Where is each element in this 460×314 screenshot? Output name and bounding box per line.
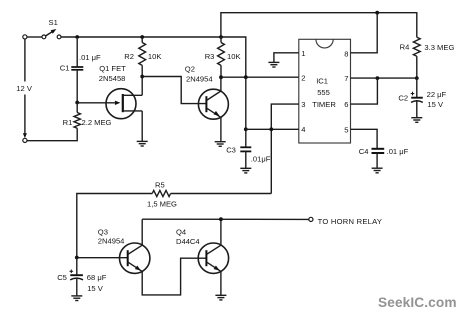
svg-text:1: 1: [301, 49, 305, 58]
wire R4 bottom lead: [416, 56, 418, 78]
svg-text:15 V: 15 V: [427, 100, 444, 109]
wire drain node to Q2 base: [142, 77, 206, 104]
node R2 top junction: [140, 35, 144, 39]
transistor Q4 (D44C4): [198, 243, 228, 273]
wire R5 right lead: [171, 193, 272, 195]
wire bottom return to R1: [27, 128, 77, 140]
wire pin 2 line: [221, 76, 299, 78]
wire pin 1 to ground: [274, 53, 299, 63]
node R4/C2 junction: [415, 76, 419, 80]
svg-text:12 V: 12 V: [16, 84, 33, 93]
capacitor C5 (electrolytic): [70, 258, 84, 296]
svg-text:R1: R1: [63, 118, 73, 127]
wire pin 5 to C4: [351, 129, 378, 148]
wire pin 6 tie to pin 7: [351, 78, 378, 104]
ground under C2: [411, 118, 422, 123]
svg-text:Q1 FET: Q1 FET: [99, 64, 126, 73]
svg-text:2N5458: 2N5458: [99, 74, 126, 83]
svg-text:2N4954: 2N4954: [98, 236, 125, 245]
wire Q4 collector riser: [220, 219, 222, 245]
svg-text:R2: R2: [124, 52, 134, 61]
node Q4 collector on output line: [219, 217, 223, 221]
ground under Q4: [215, 295, 226, 300]
svg-text:C2: C2: [398, 94, 408, 103]
switch S1: [42, 29, 61, 39]
node Q3 base / C5 junction: [75, 256, 79, 260]
resistor R2: [139, 43, 146, 66]
svg-text:68 μF: 68 μF: [87, 273, 107, 282]
svg-text:.01μF: .01μF: [251, 154, 271, 163]
ground under Q1: [137, 141, 148, 146]
ground under C3: [240, 168, 251, 173]
svg-text:4: 4: [301, 125, 305, 134]
svg-text:2: 2: [301, 74, 305, 83]
svg-text:15 V: 15 V: [87, 284, 104, 293]
wire R2 leads: [141, 37, 143, 43]
svg-text:2.2 MEG: 2.2 MEG: [82, 118, 112, 127]
svg-text:555: 555: [317, 88, 330, 97]
svg-text:SeekIC.com: SeekIC.com: [378, 295, 457, 310]
svg-text:6: 6: [344, 100, 348, 109]
svg-text:D44C4: D44C4: [176, 237, 200, 246]
node Q1 gate junction: [75, 101, 79, 105]
svg-text:R4: R4: [400, 42, 410, 51]
svg-text:.01 μF: .01 μF: [79, 53, 101, 62]
transistor Q1 (FET 2N5458): [106, 89, 142, 119]
capacitor C1: [71, 39, 83, 103]
resistor R5: [152, 190, 170, 196]
node pin8 riser top: [375, 11, 379, 15]
node pin 6/7 tie: [376, 76, 380, 80]
svg-text:C5: C5: [57, 273, 67, 282]
resistor R1: [74, 113, 80, 129]
wire Q1 drain riser: [141, 77, 143, 96]
transistor Q2 (2N4954): [198, 89, 228, 119]
capacitor C3: [240, 147, 251, 168]
svg-text:Q4: Q4: [176, 227, 186, 236]
resistor R4: [413, 37, 420, 56]
svg-text:TO HORN RELAY: TO HORN RELAY: [318, 217, 383, 226]
resistor R3: [218, 43, 225, 66]
wire Q1 source drop: [141, 111, 143, 141]
node R3 top junction: [219, 35, 223, 39]
output terminal circle: [309, 217, 313, 221]
wire Q4 emitter drop: [220, 271, 222, 295]
wire Q3 emitter to Q4 base: [142, 258, 206, 295]
svg-text:8: 8: [344, 50, 348, 59]
wire R5 left lead to Q3 base column: [77, 194, 152, 258]
node trigger line cross: [244, 75, 248, 79]
svg-text:Q2: Q2: [185, 65, 195, 74]
capacitor C4: [372, 149, 385, 168]
transistor Q3 (2N4954): [120, 243, 150, 273]
svg-text:C1: C1: [60, 64, 70, 73]
wire horn relay output line: [142, 218, 309, 220]
wire trigger column down: [245, 77, 247, 147]
ground under C5: [71, 296, 82, 301]
wire 12V left branch upper: [24, 39, 26, 82]
svg-text:R5: R5: [155, 180, 165, 189]
wire Q3 base: [77, 257, 128, 259]
node R3 bottom / Q2 collector / pin2: [219, 75, 223, 79]
svg-text:2N4954: 2N4954: [186, 75, 213, 84]
svg-text:5: 5: [344, 125, 348, 134]
ground at pin 1: [268, 62, 279, 67]
svg-text:C4: C4: [359, 147, 369, 156]
svg-text:1,5 MEG: 1,5 MEG: [147, 199, 177, 208]
capacitor C2 (electrolytic): [411, 78, 423, 118]
wire pin 8 to top rail: [351, 13, 378, 53]
op-amp/timer IC1 body: [299, 39, 351, 143]
svg-text:10K: 10K: [227, 52, 241, 61]
wire terminal to switch pole: [27, 36, 42, 38]
wire top rail to IC and R4: [221, 13, 417, 38]
wire R1 top lead: [76, 103, 78, 113]
wire pin 4 line: [246, 128, 299, 130]
battery terminal top-left (12V +): [23, 35, 27, 39]
svg-text:10K: 10K: [148, 52, 162, 61]
wire Q2 collector riser: [220, 77, 222, 91]
svg-text:.01 μF: .01 μF: [387, 147, 409, 156]
battery terminal bottom-left (12V -): [23, 138, 27, 142]
svg-text:R3: R3: [205, 52, 215, 61]
wire R3 leads: [220, 37, 222, 43]
wire Q3 collector riser: [141, 219, 143, 245]
node C1 top junction: [75, 35, 79, 39]
svg-text:S1: S1: [49, 18, 58, 27]
svg-text:IC1: IC1: [316, 76, 328, 85]
svg-text:22 μF: 22 μF: [427, 90, 447, 99]
wire +12V rail (switch to corner): [61, 37, 246, 77]
node Q1 drain / R2 bottom: [140, 75, 144, 79]
wire pin 7 line: [351, 77, 417, 79]
svg-text:TIMER: TIMER: [312, 100, 336, 109]
ground under Q2: [215, 142, 226, 147]
svg-text:Q3: Q3: [98, 227, 108, 236]
node pin4 line cross: [244, 127, 248, 131]
svg-text:C3: C3: [226, 145, 236, 154]
wire Q1 gate: [79, 102, 115, 104]
wire pin 3 output: [271, 104, 299, 193]
svg-text:7: 7: [344, 74, 348, 83]
wire Q2 emitter drop: [220, 117, 222, 141]
ground under C4: [372, 168, 383, 173]
wire 12V left branch lower with arrow: [24, 95, 26, 135]
node pin3 column on pin4 line: [269, 127, 273, 131]
svg-text:3.3 MEG: 3.3 MEG: [424, 43, 454, 52]
svg-text:3: 3: [301, 100, 305, 109]
